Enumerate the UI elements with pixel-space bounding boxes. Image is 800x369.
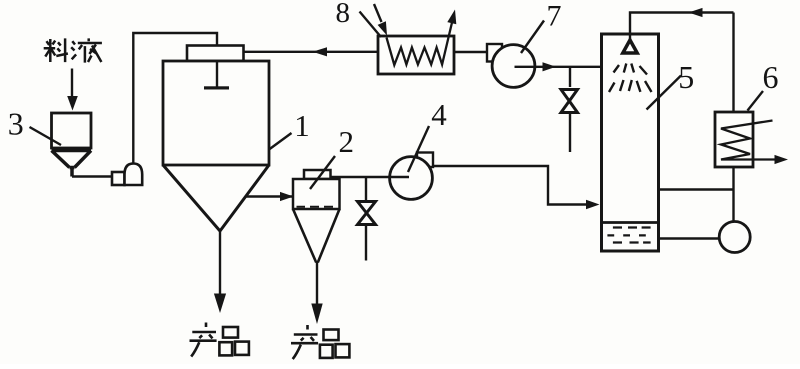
wire hx8 to dryer top with arrow [244, 47, 379, 56]
wire column top to gas return with arrow [630, 8, 734, 40]
wire feed riser [133, 33, 217, 164]
feed pump (diaphragm) [112, 164, 142, 186]
svg-text:4: 4 [431, 97, 447, 132]
heat exchanger 6 [715, 112, 775, 167]
wire dryer cone to cyclone with arrow [246, 192, 294, 201]
wire column gas outlet to riser junction [659, 188, 734, 190]
label 产品 (product) right [291, 325, 349, 359]
fan 7 [487, 44, 535, 87]
heat exchanger 8 [378, 23, 454, 75]
svg-text:2: 2 [339, 124, 355, 159]
cyclone 2 body [293, 179, 340, 209]
sump liquid surface line [602, 221, 659, 224]
svg-text:3: 3 [8, 106, 24, 142]
spray nozzle in column [623, 40, 637, 53]
drain valve below cyclone outlet [358, 177, 376, 261]
dryer cone [163, 165, 269, 231]
spray dryer 1 top box [187, 46, 244, 62]
cyclone liquid level dashes [297, 206, 334, 208]
label 产品 (product) left [190, 323, 249, 357]
wire fan 7 to column 5 with arrow [515, 62, 602, 71]
wire hopper to feed pump [72, 175, 112, 177]
feed hopper 3 [52, 113, 92, 177]
sump liquid dashes [607, 228, 650, 243]
product arrow from cyclone [311, 263, 322, 325]
cyclone cone [293, 209, 340, 263]
wire hx6 to circulation pump [732, 167, 734, 222]
wire sump outlet to pump [659, 237, 720, 239]
svg-text:7: 7 [547, 0, 562, 33]
feed inlet arrow [67, 69, 78, 111]
hx8 steam outlet arrow [447, 10, 456, 25]
spray dashes [609, 64, 652, 93]
cyclone 2 top box [304, 170, 331, 179]
blower 4 [390, 153, 433, 200]
hx6 cooling water outlet arrow [775, 155, 789, 164]
circulation pump [719, 222, 750, 253]
wire blower 4 discharge to column with arrow [433, 166, 600, 209]
vent valve below fan discharge [561, 67, 578, 152]
label 料液 (feed liquid) [44, 38, 102, 62]
svg-text:8: 8 [336, 0, 351, 29]
wire hx8 to fan 7 [454, 51, 486, 53]
svg-text:1: 1 [294, 108, 310, 143]
wire cyclone to blower 4 [331, 176, 410, 178]
svg-text:6: 6 [763, 59, 779, 95]
atomizer shaft [216, 61, 218, 87]
scrubber column 5 [602, 34, 659, 251]
product arrow from dryer [214, 231, 226, 313]
wire hx6 top riser [732, 13, 734, 113]
spray dryer 1 body [163, 61, 269, 165]
hx8 steam inlet arrow [374, 4, 387, 36]
